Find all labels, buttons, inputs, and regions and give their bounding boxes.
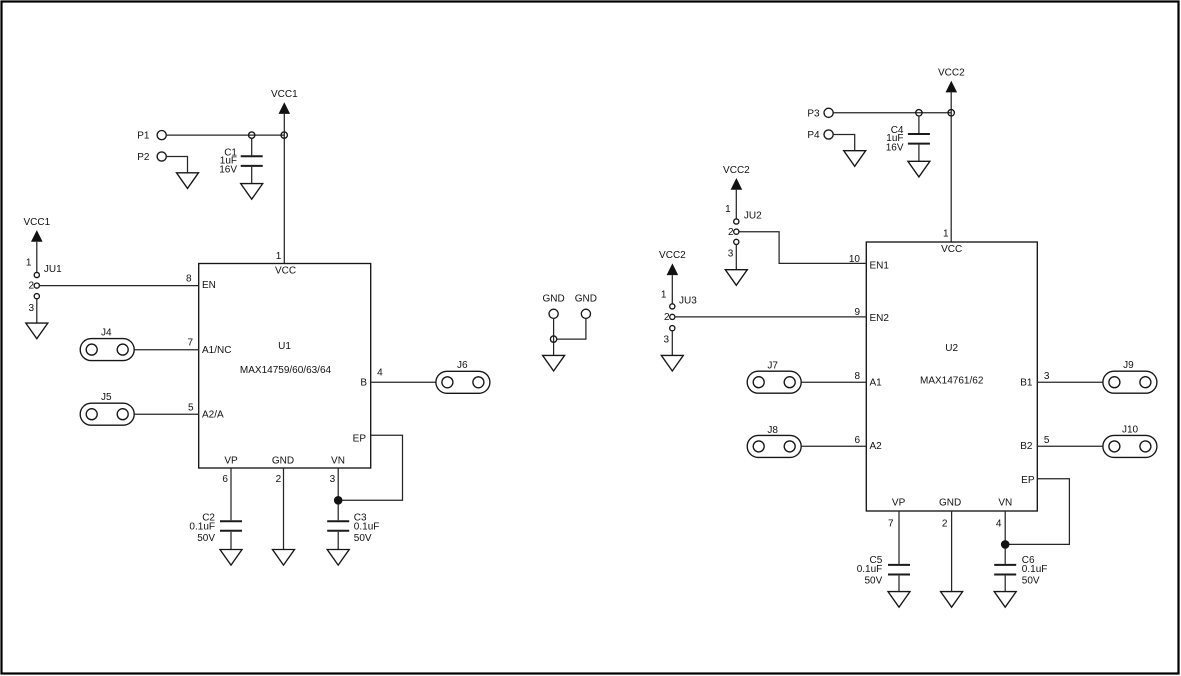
svg-text:2: 2 [728,227,734,238]
svg-text:50V: 50V [1022,576,1040,587]
wire J5 to U1 A2/A [134,413,199,415]
wire J4 to U1 A1/NC [134,349,199,351]
op-amp U1 MAX14759/60/63/64 box [199,264,371,469]
wire U2 B1 to J9 [1037,381,1103,383]
svg-text:0.1uF: 0.1uF [857,564,883,575]
connector J8 [747,425,801,457]
wire U1 EP to VN node [338,435,402,500]
svg-text:P1: P1 [137,131,150,142]
svg-text:VCC: VCC [275,266,296,277]
wire C5 to ground [898,576,900,592]
capacitor C4 [908,134,930,144]
wire U1 GND to ground [283,468,285,549]
wire U2 VN to C6 [1004,511,1006,564]
jumper JU3 [661,289,697,345]
junction VN/EP node (U2) [1001,540,1010,549]
svg-text:EP: EP [353,433,367,444]
jumper JU1 [26,258,62,314]
wire VCC2 to JU3 pin 1 [671,275,673,304]
testpoint GND (left) [542,293,564,304]
wire C6 to ground [1004,576,1006,592]
wire P1 to VCC1 node [166,134,284,136]
svg-text:6: 6 [222,474,228,485]
svg-text:VN: VN [331,456,345,467]
svg-text:J7: J7 [767,360,778,371]
pin circle P2 [157,152,166,161]
svg-text:EN1: EN1 [870,261,890,272]
svg-text:0.1uF: 0.1uF [354,522,380,533]
wire VCC1 to JU1 pin 1 [36,242,38,273]
label C1 1uF 16V [219,147,237,175]
power flag VCC2 (JU2) [723,165,750,190]
pin circle P3 [824,108,833,117]
power flag VCC2 (top) [938,68,965,93]
svg-text:J8: J8 [767,425,778,436]
junction GND net [550,336,556,342]
testpoint P1 [137,131,150,142]
svg-text:J6: J6 [457,360,468,371]
svg-text:1: 1 [661,289,667,300]
connector J5 [80,392,134,425]
ground (C5) [888,592,910,608]
svg-text:VCC: VCC [941,244,962,255]
label C5 0.1uF 50V [857,555,883,587]
svg-text:8: 8 [854,371,860,382]
capacitor C3 [327,521,349,531]
wire GND right to junction [556,318,586,339]
wire GND left to ground [553,318,555,355]
svg-text:J5: J5 [101,392,112,403]
pin circle GND right [581,309,590,318]
wire U2 VP to C5 [898,511,900,564]
testpoint P3 [807,108,820,119]
svg-text:B2: B2 [1020,441,1033,452]
junction node VCC1 [281,132,287,138]
wire U2 GND to ground [951,511,953,591]
svg-text:GND: GND [575,293,597,304]
ground (C6) [994,592,1016,608]
testpoint GND (right) [575,293,597,304]
power flag VCC1 (top) [271,89,298,114]
wire U2 B2 to J10 [1037,445,1103,447]
wire C3 to ground [337,532,339,549]
capacitor C2 [220,521,242,531]
wire JU3 pin 3 to ground [671,331,673,355]
connector J10 [1103,425,1157,458]
ground (C1) [241,184,263,200]
ground (C3) [327,550,349,566]
svg-text:4: 4 [996,518,1002,529]
wire P2 to ground [166,157,187,173]
junction node C1 tap [249,132,255,138]
svg-text:0.1uF: 0.1uF [1022,564,1048,575]
wire P3 to VCC2 node [833,112,951,114]
ground (JU1) [26,323,48,339]
svg-text:VCC2: VCC2 [938,68,965,79]
svg-text:P2: P2 [137,152,150,163]
svg-text:VCC2: VCC2 [659,250,686,261]
svg-text:2: 2 [276,474,282,485]
ground (JU2) [725,270,747,286]
label C4 1uF 16V [886,125,904,153]
op-amp U2 MAX14761/62 box [866,242,1037,511]
ground (P2) [177,173,199,189]
svg-text:2: 2 [28,281,34,292]
svg-text:J4: J4 [101,328,112,339]
svg-text:A1: A1 [870,377,883,388]
junction node C4 tap [916,110,922,116]
ground (C4) [908,161,930,177]
svg-text:5: 5 [188,402,194,413]
svg-text:1: 1 [725,204,731,215]
capacitor C6 [994,565,1016,575]
svg-text:3: 3 [28,303,34,314]
power flag VCC2 (JU3) [659,250,686,275]
svg-text:MAX14761/62: MAX14761/62 [920,375,984,386]
svg-text:A1/NC: A1/NC [202,345,231,356]
svg-text:3: 3 [330,474,336,485]
label C3 0.1uF 50V [354,512,380,544]
wire VCC1 to U1 VCC pin 1 [283,114,285,264]
svg-text:VP: VP [892,498,906,509]
svg-text:2: 2 [664,312,670,323]
wire C4 to ground [918,145,920,162]
wire JU1 pin 2 to U1 EN [40,285,199,287]
wire U2 EP to VN node [1005,479,1069,545]
svg-text:U2: U2 [945,343,958,354]
junction VN/EP node [334,496,343,505]
svg-text:A2/A: A2/A [202,409,224,420]
testpoint P4 [807,130,820,141]
ground (JU3) [661,355,683,371]
connector J7 [747,360,801,393]
svg-text:6: 6 [854,435,860,446]
svg-text:0.1uF: 0.1uF [189,522,215,533]
capacitor C1 [241,156,263,166]
svg-text:5: 5 [1044,435,1050,446]
svg-text:J10: J10 [1122,425,1139,436]
svg-text:50V: 50V [865,576,883,587]
svg-text:1: 1 [276,251,282,262]
svg-text:P3: P3 [807,108,820,119]
svg-text:10: 10 [849,254,861,265]
wire JU1 pin 3 to ground [36,299,38,323]
svg-text:7: 7 [187,338,193,349]
svg-text:VCC1: VCC1 [271,89,298,100]
svg-text:16V: 16V [219,165,237,176]
svg-text:7: 7 [888,518,894,529]
connector J9 [1103,360,1157,393]
svg-text:U1: U1 [278,341,291,352]
capacitor C5 [888,565,910,575]
svg-text:GND: GND [272,456,294,467]
wire U1 B to J6 [371,381,436,383]
connector J6 [436,360,490,393]
testpoint P2 [137,152,150,163]
jumper JU2 [725,204,762,260]
svg-text:P4: P4 [807,130,820,141]
ground (P4) [844,151,866,167]
svg-text:MAX14759/60/63/64: MAX14759/60/63/64 [240,365,332,376]
wire VCC2 to JU2 pin 1 [735,190,737,219]
wire VCC2 to U2 VCC pin 1 [950,92,952,242]
svg-text:8: 8 [186,273,192,284]
svg-text:B: B [360,378,367,389]
svg-text:1: 1 [943,228,949,239]
svg-text:JU3: JU3 [679,296,697,307]
wire P4 to ground [833,135,855,151]
wire C2 to ground [230,532,232,549]
wire C1 to ground [251,167,253,184]
wire JU3 pin 2 to U2 EN2 [675,316,866,318]
pin circle GND left [549,309,558,318]
svg-text:2: 2 [942,518,948,529]
svg-text:EN2: EN2 [870,313,890,324]
wire U1 VN to C3 [337,468,339,520]
svg-text:JU2: JU2 [744,211,762,222]
svg-text:B1: B1 [1020,377,1033,388]
svg-text:VN: VN [998,498,1012,509]
svg-text:J9: J9 [1123,360,1134,371]
svg-text:3: 3 [728,249,734,260]
power flag VCC1 (JU1) [23,217,50,242]
svg-text:EN: EN [202,280,216,291]
svg-text:3: 3 [663,335,669,346]
svg-text:50V: 50V [354,533,372,544]
ground (C2) [220,550,242,566]
svg-text:16V: 16V [886,142,904,153]
svg-text:VP: VP [224,456,238,467]
wire JU2 pin 2 to U2 EN1 [739,232,866,264]
svg-text:VCC2: VCC2 [723,165,750,176]
svg-text:50V: 50V [197,533,215,544]
svg-text:VCC1: VCC1 [23,217,50,228]
svg-text:3: 3 [1044,371,1050,382]
wire node to C1 [251,138,253,155]
svg-text:EP: EP [1021,475,1035,486]
pin circle P4 [824,130,833,139]
wire J8 to U2 A2 [801,445,866,447]
svg-text:JU1: JU1 [44,264,62,275]
wire JU2 pin 3 to ground [735,245,737,270]
svg-text:GND: GND [542,293,564,304]
wire J7 to U2 A1 [801,381,866,383]
svg-text:A2: A2 [870,441,883,452]
ground (GND pins) [543,355,565,371]
svg-text:4: 4 [377,368,383,379]
pin circle P1 [157,131,166,140]
wire node to C4 [918,116,920,133]
label C6 0.1uF 50V [1022,555,1048,587]
ground (U1 GND) [273,550,295,566]
connector J4 [80,328,134,361]
svg-text:9: 9 [854,307,860,318]
svg-text:1: 1 [26,258,32,269]
label C2 0.1uF 50V [189,512,215,544]
svg-text:GND: GND [939,498,961,509]
ground (U2 GND) [941,592,963,608]
junction node VCC2 [948,110,954,116]
wire U1 VP to C2 [230,468,232,520]
